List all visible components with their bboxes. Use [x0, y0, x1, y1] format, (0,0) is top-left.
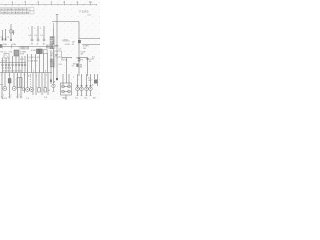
svg-text:W: W [89, 61, 91, 63]
svg-text:2G: 2G [80, 67, 83, 69]
svg-text:F 30/50: F 30/50 [80, 10, 89, 14]
svg-text:A 2 B: A 2 B [2, 97, 7, 100]
svg-text:W: W [72, 44, 74, 46]
svg-text:2 4 6 8 A B: 2 4 6 8 A B [2, 66, 12, 69]
svg-text:3CM5C3C#5CB3CZ5C3CM5: 3CM5C3C#5CB3CZ5C3CM5 [1, 12, 30, 14]
svg-text:1B 0.5W 2L 0.5 1G 4B: 1B 0.5W 2L 0.5 1G 4B [2, 70, 23, 72]
svg-text:0.5W: 0.5W [31, 50, 36, 52]
svg-text:K5 1 C: K5 1 C [1, 51, 8, 53]
svg-text:4C#2C4CB2C#4CM2C4CZ2: 4C#2C4CB2C#4CM2C4CZ2 [1, 9, 30, 11]
svg-text:0.5G: 0.5G [63, 59, 68, 61]
svg-text:M*: M* [55, 53, 58, 57]
svg-text:G L R B W: G L R B W [28, 61, 38, 63]
svg-text:1 0.5 0.5 1 0.5: 1 0.5 0.5 1 0.5 [27, 57, 41, 59]
svg-text:1 3 5 7: 1 3 5 7 [1, 60, 8, 62]
svg-text:GW: GW [88, 80, 92, 82]
svg-text:GND: GND [62, 98, 67, 100]
svg-text:W: W [92, 59, 94, 61]
svg-text:0.5R: 0.5R [20, 54, 25, 56]
svg-text:0.5Y: 0.5Y [20, 59, 25, 61]
svg-text:A-21: A-21 [88, 13, 92, 16]
svg-text:1G: 1G [31, 43, 34, 45]
svg-text:0.5W: 0.5W [65, 44, 70, 46]
svg-text:B-W: B-W [50, 48, 54, 50]
